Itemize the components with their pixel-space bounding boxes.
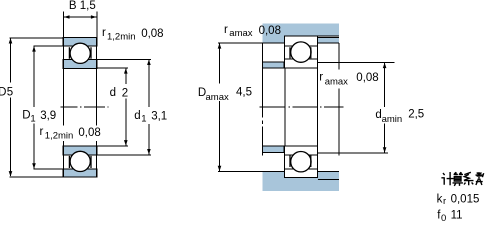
svg-text:5: 5 [7,86,13,98]
shaft surface lines between halves [285,68,318,146]
svg-text:d: d [110,87,116,99]
svg-text:r: r [102,27,106,39]
svg-text:k: k [437,194,443,206]
dimension D1 3,9 [34,46,64,169]
svg-text:amax: amax [325,77,348,88]
svg-text:0,015: 0,015 [451,194,480,206]
right top ball [291,42,311,62]
svg-text:0,08: 0,08 [78,127,100,139]
bottom ball groove shoulders [69,156,91,168]
shaft shoulder strip (bottom-left) [263,146,284,153]
top section side walls [64,38,97,69]
right bottom groove shoulders [290,156,311,168]
right bearing bottom section box [285,146,318,178]
svg-text:amax: amax [229,28,252,39]
outer ring bottom band [63,169,97,177]
svg-text:r: r [443,196,446,207]
centerline left view [61,106,109,108]
svg-text:1,2min: 1,2min [45,130,74,141]
right bottom ball [291,152,311,172]
svg-text:1,2min: 1,2min [107,32,136,43]
dimension d 2 [97,68,128,146]
svg-text:amin: amin [382,114,403,125]
svg-text:3,1: 3,1 [151,110,167,122]
right bearing top bands [285,46,318,59]
right top groove shoulders [290,47,311,58]
svg-text:4,5: 4,5 [236,87,252,99]
right cut edge line [338,43,340,155]
svg-text:D: D [0,86,6,98]
dimension da min 2,5 [318,62,394,152]
top ball groove shoulders [69,47,91,59]
shaft right strip (bottom) [318,171,339,179]
svg-text:D: D [22,110,30,122]
right bearing top section box [285,36,318,68]
r_a leader / Da top extension [218,42,262,44]
svg-text:B 1,5: B 1,5 [69,0,96,12]
svg-text:amax: amax [206,92,229,103]
top ball [70,43,90,63]
svg-text:d: d [134,110,140,122]
svg-text:1: 1 [141,114,146,125]
right bearing bottom bands [285,155,318,169]
svg-text:3,9: 3,9 [40,110,56,122]
bottom block working edges [262,172,318,178]
svg-text:0,08: 0,08 [141,28,163,40]
housing block (top) [262,23,339,43]
svg-text:0: 0 [441,213,446,222]
left cut edge line [261,43,263,156]
calculation factors title 计算系数 [441,172,483,186]
svg-text:r: r [319,71,323,83]
svg-text:1: 1 [30,114,35,125]
dimension Da max 4,5 [219,43,221,170]
svg-text:r: r [40,126,44,138]
bore lines between halves [64,68,97,146]
inner ring bottom band [63,146,97,155]
svg-text:11: 11 [451,210,463,222]
shaft/housing block (bottom) [262,172,339,191]
svg-text:r: r [224,24,228,36]
dimension d1 3,1 [97,59,151,155]
svg-text:2: 2 [122,87,128,99]
centerline right view [260,106,344,108]
svg-text:0,08: 0,08 [356,72,378,84]
shaft shoulder strip (top-left) [263,62,284,68]
housing right strip (top) [318,37,339,43]
dimension D 5 [10,38,64,177]
inner ring top band [63,59,97,68]
housing bottom working edges [262,36,339,43]
svg-text:0,08: 0,08 [259,25,281,37]
bottom ball [70,151,90,171]
bottom section side walls [64,146,97,177]
outer ring top band [63,38,97,47]
svg-text:2,5: 2,5 [408,109,424,121]
